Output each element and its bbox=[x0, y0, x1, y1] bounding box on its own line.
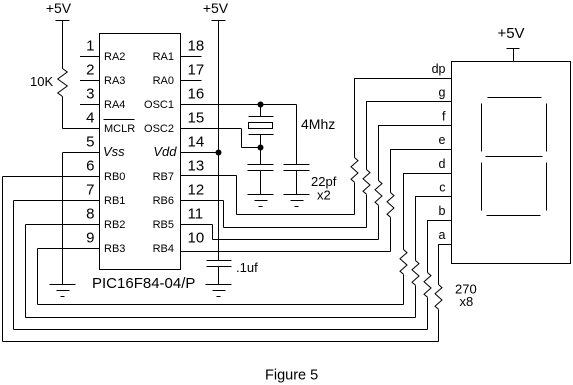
power +5V centre bar bbox=[212, 20, 226, 22]
wire display pin a bbox=[439, 245, 452, 285]
svg-text:OSC2: OSC2 bbox=[144, 123, 174, 135]
wire RB7 horizontal to resistor dp bbox=[237, 214, 355, 216]
segment g middle bbox=[486, 156, 543, 158]
svg-text:.1uf: .1uf bbox=[236, 260, 258, 275]
segment f top-left bbox=[481, 104, 483, 152]
svg-text:RB0: RB0 bbox=[104, 171, 125, 183]
wire RB3 bottom horizontal bbox=[38, 304, 404, 306]
power +5V left bar bbox=[56, 20, 70, 22]
capacitor C1 22pf plates bbox=[248, 164, 274, 166]
svg-text:g: g bbox=[439, 86, 446, 100]
junction dot OSC1 node bbox=[258, 102, 264, 108]
svg-text:RA1: RA1 bbox=[153, 51, 174, 63]
crystal Y1 bottom plate bbox=[249, 134, 274, 136]
pin 14 stub Vdd wire bbox=[181, 152, 219, 154]
wire OSC2 vertical jog bbox=[241, 129, 243, 148]
IC U1 PIC16F84 body bbox=[100, 34, 181, 270]
capacitor C3 .1uf plates bbox=[207, 260, 232, 262]
wire resistor a bottom bbox=[438, 310, 440, 342]
wire RB2 vertical left bbox=[25, 225, 27, 318]
ground C1 bars bbox=[248, 194, 274, 196]
power +5V display bar bbox=[507, 48, 520, 50]
wire resistor R1 bottom to pin4 bbox=[62, 97, 64, 129]
svg-text:9: 9 bbox=[86, 230, 94, 247]
svg-text:PIC16F84-04/P: PIC16F84-04/P bbox=[92, 275, 195, 292]
svg-text:RA0: RA0 bbox=[153, 75, 174, 87]
segment e bottom-left bbox=[481, 163, 483, 211]
pin 12 stub RB6 wire bbox=[181, 200, 224, 202]
wire display pin d bbox=[404, 174, 452, 250]
svg-text:RB3: RB3 bbox=[104, 243, 125, 255]
wire resistor d bottom bbox=[403, 275, 405, 305]
wire OSC2 horizontal to node B bbox=[242, 147, 261, 149]
pin 16 stub OSC1 wire bbox=[181, 104, 297, 106]
MCLR overbar bbox=[104, 119, 135, 121]
wire RB6 horizontal to resistor g bbox=[224, 227, 367, 229]
capacitor C2 22pf plates bbox=[284, 164, 310, 166]
wire OSC1 branch down right side bbox=[296, 105, 298, 165]
pin 17 stub RA0 bbox=[181, 80, 202, 82]
crystal Y1 body bbox=[249, 123, 273, 129]
svg-text:16: 16 bbox=[188, 86, 205, 103]
pin 9 stub RB3 wire bbox=[38, 248, 100, 250]
ground Vss bars bbox=[50, 284, 76, 286]
svg-text:MCLR: MCLR bbox=[104, 123, 135, 135]
svg-text:2: 2 bbox=[86, 62, 94, 79]
wire RB5 vertical bbox=[212, 225, 214, 240]
svg-text:Vss: Vss bbox=[103, 144, 125, 159]
wire C2 to ground bbox=[296, 171, 298, 195]
svg-text:+5V: +5V bbox=[46, 0, 72, 16]
ground C3 bars bbox=[206, 284, 232, 286]
svg-text:RB2: RB2 bbox=[104, 219, 125, 231]
wire RB1 bottom horizontal bbox=[14, 329, 428, 331]
wire crystal to node B bbox=[260, 135, 262, 165]
segment c bottom-right bbox=[546, 163, 548, 211]
svg-text:+5V: +5V bbox=[203, 0, 229, 16]
svg-text:x2: x2 bbox=[317, 188, 331, 203]
resistor R9 a zigzag bbox=[435, 285, 442, 310]
pin 8 stub RB2 wire bbox=[26, 224, 100, 226]
svg-text:RB7: RB7 bbox=[153, 171, 174, 183]
resistor R1 10K zigzag bbox=[58, 69, 68, 97]
resistor R2 dp zigzag bbox=[351, 158, 358, 183]
svg-text:10: 10 bbox=[188, 230, 205, 247]
svg-text:3: 3 bbox=[86, 86, 94, 103]
svg-text:6: 6 bbox=[86, 158, 94, 175]
wire RB5 horizontal to resistor f bbox=[213, 239, 379, 241]
wire resistor c bottom bbox=[415, 286, 417, 318]
pin 11 stub RB5 wire bbox=[181, 224, 213, 226]
svg-text:b: b bbox=[439, 204, 446, 218]
svg-text:OSC1: OSC1 bbox=[144, 99, 174, 111]
wire RB0 vertical left bbox=[2, 177, 4, 342]
wire resistor g bottom bbox=[366, 195, 368, 228]
svg-text:e: e bbox=[439, 133, 446, 147]
ground C2 bars bbox=[284, 194, 310, 196]
wire RB2 bottom horizontal bbox=[26, 317, 416, 319]
svg-text:11: 11 bbox=[188, 206, 204, 223]
svg-text:RA3: RA3 bbox=[104, 75, 125, 87]
svg-text:RB1: RB1 bbox=[104, 195, 125, 207]
svg-text:4: 4 bbox=[86, 110, 94, 127]
wire +5V centre down to Vdd bbox=[218, 21, 220, 153]
wire OSC1 node down to crystal bbox=[260, 105, 262, 117]
svg-text:RA4: RA4 bbox=[104, 99, 125, 111]
svg-text:RB6: RB6 bbox=[153, 195, 174, 207]
wire +5V left down to resistor R1 bbox=[62, 21, 64, 69]
display DS1 7-segment body bbox=[452, 62, 571, 264]
junction dot node B OSC2 bbox=[258, 145, 264, 151]
wire display pin e bbox=[391, 150, 452, 193]
pin 13 stub RB7 wire bbox=[181, 175, 237, 177]
wire resistor b bottom bbox=[427, 298, 429, 330]
segment a top bbox=[488, 97, 542, 99]
svg-text:Vdd: Vdd bbox=[153, 144, 177, 159]
wire resistor e bottom bbox=[390, 218, 392, 252]
svg-text:x8: x8 bbox=[460, 294, 474, 309]
svg-text:18: 18 bbox=[188, 38, 205, 55]
wire +5V display down bbox=[513, 49, 515, 62]
wire C1 to ground bbox=[260, 171, 262, 195]
pin 2 stub RA3 bbox=[80, 80, 100, 82]
pin 18 stub RA1 bbox=[181, 56, 202, 58]
svg-text:8: 8 bbox=[86, 206, 94, 223]
wire RB0 bottom horizontal bbox=[3, 341, 439, 343]
wire RB1 vertical left bbox=[13, 201, 15, 330]
svg-text:f: f bbox=[442, 110, 446, 124]
crystal Y1 top plate bbox=[249, 116, 274, 118]
pin 5 stub Vss wire bbox=[63, 152, 100, 154]
svg-text:13: 13 bbox=[188, 158, 205, 175]
svg-text:10K: 10K bbox=[30, 74, 53, 89]
pin 4 stub MCLR wire from resistor R1 bbox=[63, 128, 100, 130]
svg-text:15: 15 bbox=[188, 110, 205, 127]
svg-text:a: a bbox=[439, 228, 446, 242]
svg-text:+5V: +5V bbox=[497, 25, 524, 42]
svg-text:17: 17 bbox=[188, 62, 205, 79]
svg-text:4Mhz: 4Mhz bbox=[301, 116, 335, 132]
svg-text:d: d bbox=[439, 157, 446, 171]
resistor R6 d zigzag bbox=[400, 250, 407, 275]
resistor R3 g zigzag bbox=[363, 170, 370, 195]
pin 7 stub RB1 wire bbox=[14, 200, 100, 202]
wire display pin dp bbox=[355, 79, 452, 158]
wire C3 to ground bbox=[218, 267, 220, 285]
svg-text:5: 5 bbox=[86, 134, 94, 151]
wire RB3 vertical left bbox=[37, 249, 39, 305]
svg-text:7: 7 bbox=[86, 182, 94, 199]
segment b top-right bbox=[546, 104, 548, 152]
pin 15 stub OSC2 wire bbox=[181, 128, 242, 130]
segment d bottom bbox=[487, 215, 541, 217]
pin 6 stub RB0 wire bbox=[3, 176, 100, 178]
pin 1 stub RA2 bbox=[80, 56, 100, 58]
pin 3 stub RA4 bbox=[80, 104, 100, 106]
pin 10 stub RB4 wire bbox=[181, 251, 391, 253]
svg-text:RA2: RA2 bbox=[104, 51, 125, 63]
wire RB6 vertical bbox=[223, 201, 225, 228]
wire display pin f bbox=[379, 126, 452, 181]
wire RB7 vertical bbox=[236, 176, 238, 215]
resistor R7 c zigzag bbox=[412, 261, 419, 286]
svg-text:RB5: RB5 bbox=[153, 219, 174, 231]
svg-text:dp: dp bbox=[432, 62, 446, 76]
resistor R8 b zigzag bbox=[424, 273, 431, 298]
wire Vdd down to capacitor C3 bbox=[218, 153, 220, 261]
resistor R4 f zigzag bbox=[375, 181, 382, 206]
junction dot Vdd bbox=[216, 150, 222, 156]
wire resistor dp bottom bbox=[354, 183, 356, 215]
svg-text:1: 1 bbox=[86, 38, 94, 55]
wire display pin g bbox=[367, 102, 452, 170]
svg-text:c: c bbox=[439, 181, 445, 195]
svg-text:12: 12 bbox=[188, 182, 205, 199]
wire Vss down to ground bbox=[62, 153, 64, 285]
wire display pin c bbox=[416, 197, 452, 261]
svg-text:RB4: RB4 bbox=[153, 243, 174, 255]
svg-text:14: 14 bbox=[188, 134, 205, 151]
wire display pin b bbox=[428, 221, 452, 273]
svg-text:Figure 5: Figure 5 bbox=[265, 368, 318, 384]
wire resistor f bottom bbox=[378, 206, 380, 240]
resistor R5 e zigzag bbox=[387, 193, 394, 218]
